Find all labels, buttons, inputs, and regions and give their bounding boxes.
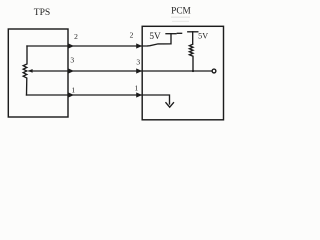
output terminal bbox=[212, 69, 216, 73]
svg-text:1: 1 bbox=[71, 85, 75, 94]
wire 1 bbox=[27, 95, 170, 104]
connector arrow PCM pin 3 bbox=[136, 68, 142, 73]
svg-text:3: 3 bbox=[136, 57, 140, 66]
ground bbox=[166, 103, 174, 108]
connector arrow PCM pin 1 bbox=[136, 92, 142, 97]
scan smudge under PCM bbox=[171, 17, 190, 18]
wiper arrow bbox=[28, 69, 33, 73]
TPS box bbox=[8, 29, 68, 117]
svg-text:5V: 5V bbox=[149, 32, 161, 42]
svg-text:1: 1 bbox=[135, 84, 139, 93]
wire 2 bbox=[27, 45, 147, 47]
resistor R2 bbox=[189, 44, 193, 71]
svg-text:5V: 5V bbox=[198, 31, 208, 40]
junction dot R2/wire3 bbox=[192, 70, 194, 72]
svg-text:2: 2 bbox=[130, 30, 134, 39]
5V supply right rail bbox=[188, 31, 198, 33]
PCM box bbox=[142, 26, 223, 120]
connector arrow TPS pin 2 bbox=[68, 43, 74, 48]
connector arrow TPS pin 3 bbox=[68, 68, 74, 73]
svg-text:PCM: PCM bbox=[171, 7, 191, 17]
svg-text:3: 3 bbox=[70, 56, 74, 65]
svg-text:TPS: TPS bbox=[34, 7, 51, 18]
connector arrow PCM pin 2 bbox=[136, 43, 142, 48]
connector arrow TPS pin 1 bbox=[68, 92, 74, 97]
5V supply left rail bbox=[148, 34, 171, 46]
svg-text:2: 2 bbox=[74, 32, 78, 41]
wire 3 bbox=[29, 70, 212, 72]
potentiometer R1 bbox=[23, 46, 27, 95]
